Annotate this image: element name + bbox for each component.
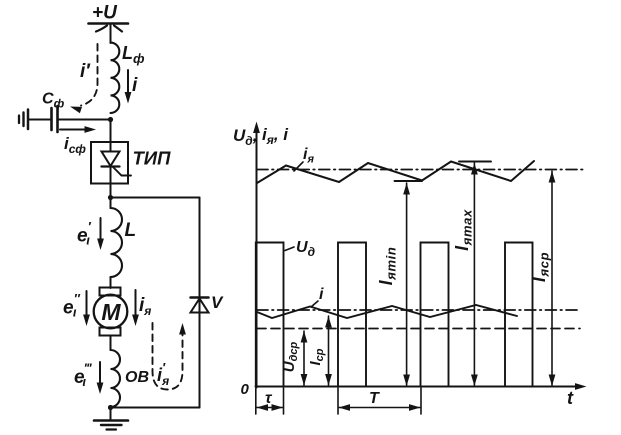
svg-text:+U: +U bbox=[92, 3, 118, 24]
svg-text:L: L bbox=[125, 220, 137, 241]
svg-text:t: t bbox=[567, 388, 574, 408]
svg-text:i: i bbox=[319, 286, 324, 303]
svg-text:0: 0 bbox=[241, 381, 250, 398]
svg-text:Uд,: Uд, bbox=[233, 126, 257, 148]
svg-text:ОВ: ОВ bbox=[125, 369, 149, 386]
svg-text:i: i bbox=[132, 75, 138, 96]
svg-text:T: T bbox=[369, 390, 380, 407]
svg-text:ТИП: ТИП bbox=[133, 148, 172, 169]
svg-text:V: V bbox=[211, 293, 224, 312]
svg-text:i′: i′ bbox=[80, 61, 91, 82]
svg-text:iя, i: iя, i bbox=[262, 125, 289, 147]
svg-text:M: M bbox=[101, 299, 121, 325]
